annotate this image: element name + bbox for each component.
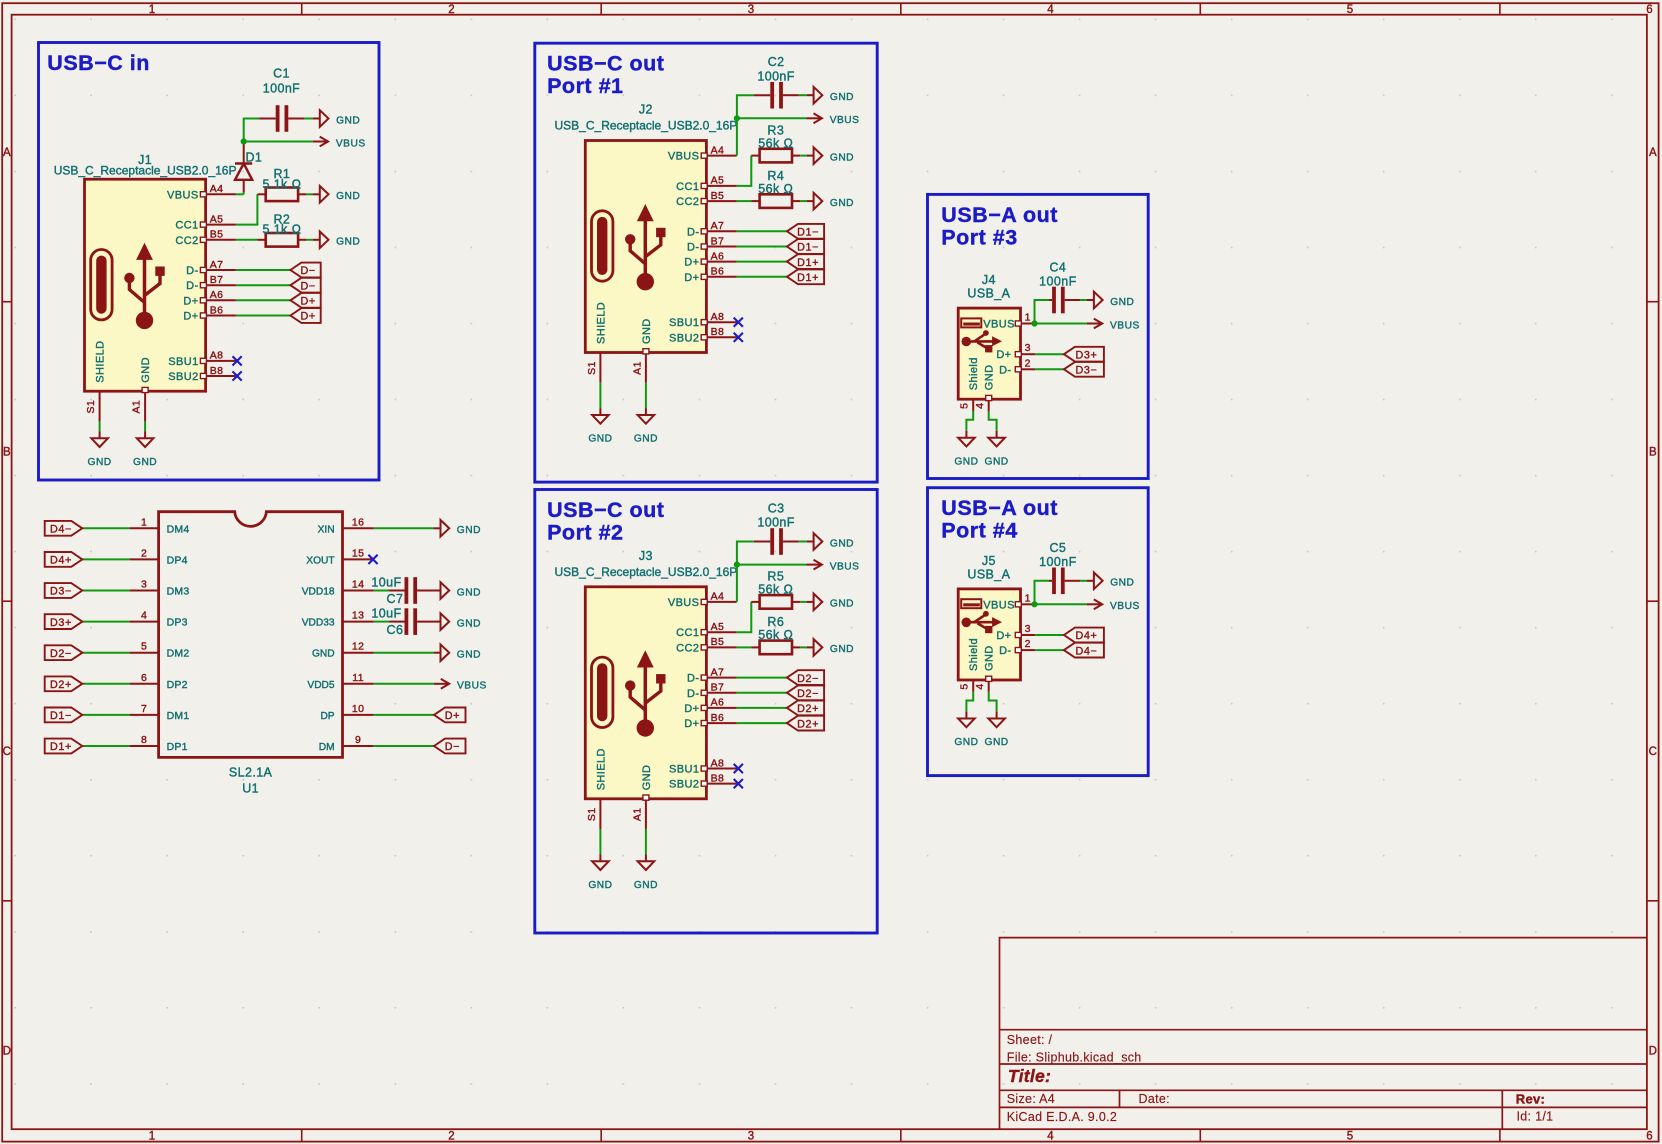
wire CC1 riser to R1 — [236, 194, 258, 224]
hierarchical label D2+ (J3 A6) — [787, 701, 824, 716]
wire R3 to GND — [800, 155, 806, 157]
power symbol GND (J5 shield) — [965, 712, 967, 719]
svg-text:8: 8 — [141, 734, 147, 746]
svg-text:7: 7 — [141, 703, 147, 715]
svg-text:D+: D+ — [183, 295, 198, 307]
power symbol GND (C4) — [1087, 299, 1094, 301]
svg-text:DP1: DP1 — [167, 741, 188, 753]
svg-text:D1+: D1+ — [797, 257, 819, 269]
wire CC1 riser to R3 — [737, 156, 752, 186]
power symbol GND (C3) — [807, 541, 814, 543]
svg-text:12: 12 — [352, 641, 364, 653]
hierarchical label D1- (J2 B7) — [787, 239, 824, 254]
hierarchical label D+ (A6) — [290, 293, 320, 308]
svg-text:D2−: D2− — [797, 688, 819, 700]
svg-text:A8: A8 — [711, 311, 725, 323]
svg-text:VBUS: VBUS — [668, 151, 700, 163]
svg-text:GND: GND — [336, 237, 360, 248]
svg-text:SHIELD: SHIELD — [95, 341, 107, 383]
wire VDD33 to C6 — [374, 621, 390, 623]
svg-text:1: 1 — [1025, 312, 1031, 324]
power symbol GND (J3 shield) — [599, 854, 601, 861]
wire A6 to label D2+ — [737, 707, 787, 709]
svg-text:VBUS: VBUS — [1110, 320, 1140, 331]
svg-text:A6: A6 — [210, 289, 224, 301]
svg-text:2: 2 — [448, 1131, 454, 1143]
U1 pin 1 DM4 — [130, 516, 190, 535]
svg-text:SL2.1A: SL2.1A — [229, 766, 273, 780]
svg-text:DM3: DM3 — [167, 586, 190, 598]
svg-text:B5: B5 — [711, 190, 725, 202]
IC U1 SL2.1A — [159, 512, 343, 796]
hierarchical label D1- (U1 input) — [45, 708, 83, 723]
wire A7 to label D1- — [737, 230, 787, 232]
U1 pin 10 DP — [320, 703, 373, 722]
wire XIN to GND — [374, 527, 434, 529]
svg-text:C6: C6 — [387, 623, 404, 637]
svg-text:A7: A7 — [210, 259, 224, 271]
hierarchical label D3+ (J4) — [1064, 347, 1104, 362]
svg-text:C7: C7 — [387, 592, 404, 606]
capacitor C5 100nF — [1039, 541, 1080, 594]
svg-text:J2: J2 — [639, 103, 653, 117]
svg-text:GND: GND — [830, 599, 854, 610]
svg-text:C5: C5 — [1050, 541, 1067, 555]
svg-text:D4−: D4− — [1076, 645, 1098, 657]
svg-text:A4: A4 — [711, 144, 725, 156]
svg-text:D−: D− — [300, 265, 315, 277]
svg-text:D3+: D3+ — [1076, 349, 1098, 361]
svg-text:D1+: D1+ — [797, 272, 819, 284]
svg-text:SBU2: SBU2 — [669, 332, 699, 344]
power symbol GND (R3) — [807, 155, 814, 157]
wire pin1 riser to C5 — [1035, 581, 1050, 605]
svg-text:S1: S1 — [586, 361, 598, 375]
svg-text:GND: GND — [457, 650, 481, 661]
junction VBUS node — [241, 138, 247, 144]
no-connect SBU1 — [233, 356, 242, 365]
resistor R2 5.1k — [257, 212, 306, 246]
wire VBUS J4 — [1035, 323, 1087, 325]
wire label D4+ to U1 pin 2 — [82, 558, 129, 560]
title block outline — [1000, 938, 1647, 1130]
wire VBUS riser to C1 — [244, 119, 260, 142]
svg-text:5: 5 — [141, 641, 147, 653]
U1 pin 9 DM — [319, 734, 374, 753]
U1 pin 4 DP3 — [130, 610, 188, 629]
svg-text:13: 13 — [352, 610, 364, 622]
power symbol VBUS (J5) — [1087, 603, 1102, 605]
svg-text:SBU1: SBU1 — [168, 356, 198, 368]
power symbol GND (R4) — [807, 200, 814, 202]
svg-text:CC1: CC1 — [175, 220, 198, 232]
svg-text:B7: B7 — [711, 682, 725, 694]
svg-text:R4: R4 — [767, 169, 784, 183]
wire CC2 to R4 — [737, 200, 752, 202]
svg-text:4: 4 — [141, 610, 147, 622]
svg-text:GND: GND — [985, 456, 1009, 467]
wire GND pin12 — [374, 652, 434, 654]
svg-text:2: 2 — [1025, 638, 1031, 650]
svg-text:D3+: D3+ — [50, 617, 72, 629]
svg-text:56k Ω: 56k Ω — [758, 628, 793, 642]
capacitor C4 100nF — [1039, 260, 1080, 313]
svg-text:GND: GND — [336, 115, 360, 126]
svg-text:B6: B6 — [711, 266, 725, 278]
power symbol GND (J1 gnd) — [144, 431, 146, 438]
svg-text:11: 11 — [352, 672, 364, 684]
wire DM to label D- — [374, 745, 434, 747]
connector J4 USB_A — [958, 273, 1035, 411]
svg-text:DM4: DM4 — [167, 523, 190, 535]
svg-text:GND: GND — [88, 457, 112, 468]
svg-text:SHIELD: SHIELD — [595, 748, 607, 790]
svg-text:D+: D+ — [183, 311, 198, 323]
hierarchical label D2+ (U1 input) — [45, 676, 83, 691]
svg-text:4: 4 — [1047, 1131, 1054, 1143]
svg-text:GND: GND — [954, 456, 978, 467]
wire B7 to label D1- — [737, 246, 787, 248]
svg-text:GND: GND — [641, 765, 653, 791]
wire B6 to label D+ — [236, 315, 291, 317]
svg-text:XIN: XIN — [318, 524, 335, 535]
svg-text:Size: A4: Size: A4 — [1007, 1092, 1055, 1106]
power symbol GND (R2) — [313, 239, 320, 241]
svg-text:USB_A: USB_A — [967, 287, 1010, 301]
hierarchical label D3- (U1 input) — [45, 583, 83, 598]
U1 pin 7 DM1 — [130, 703, 190, 722]
svg-text:9: 9 — [355, 734, 361, 746]
power symbol GND (J2 shield) — [599, 408, 601, 415]
hierarchical label D1- (J2 A7) — [787, 224, 824, 239]
hierarchical label D4+ (U1 input) — [45, 552, 83, 567]
svg-text:6: 6 — [141, 672, 147, 684]
junction VBUS node J3 — [734, 562, 740, 568]
svg-text:CC2: CC2 — [676, 196, 699, 208]
svg-text:GND: GND — [588, 434, 612, 445]
svg-text:DP3: DP3 — [167, 617, 188, 629]
svg-text:D+: D+ — [684, 718, 699, 730]
svg-text:XOUT: XOUT — [306, 555, 334, 566]
svg-text:56k Ω: 56k Ω — [758, 136, 793, 150]
power symbol GND (J4 gnd) — [996, 431, 998, 438]
wire CC2 to R6 — [737, 646, 752, 648]
connector J5 USB_A — [958, 554, 1035, 692]
svg-text:CC2: CC2 — [676, 642, 699, 654]
svg-text:D2+: D2+ — [50, 679, 72, 691]
hierarchical label D2- (J3 A7) — [787, 670, 824, 685]
svg-text:GND: GND — [830, 152, 854, 163]
svg-text:GND: GND — [457, 587, 481, 598]
svg-text:A6: A6 — [711, 697, 725, 709]
wire D+ to label D4+ — [1035, 634, 1064, 636]
wire C3 to GND — [799, 541, 807, 543]
no-connect SBU2 — [233, 371, 242, 380]
svg-text:3: 3 — [748, 1131, 754, 1143]
svg-text:DP: DP — [320, 711, 334, 722]
text box USB-C out Port #2 — [535, 490, 877, 934]
svg-text:U1: U1 — [242, 782, 259, 796]
svg-text:B8: B8 — [711, 326, 725, 338]
capacitor C7 10uF — [371, 575, 433, 605]
wire R1 to GND — [306, 193, 313, 195]
svg-text:VBUS: VBUS — [457, 681, 487, 692]
wire gnd pin4 to GND J5 — [989, 692, 997, 712]
svg-text:Shield: Shield — [968, 357, 980, 390]
svg-text:R5: R5 — [767, 570, 784, 584]
text box USB-C out Port #1 — [535, 43, 877, 482]
svg-text:A5: A5 — [210, 213, 224, 225]
svg-text:VBUS: VBUS — [830, 561, 860, 572]
capacitor C6 10uF — [371, 607, 433, 637]
svg-text:J5: J5 — [982, 554, 996, 568]
svg-text:2: 2 — [1025, 357, 1031, 369]
power symbol VBUS (J2) — [807, 117, 822, 119]
hierarchical label D4- (U1 input) — [45, 521, 83, 536]
power symbol GND (J2 gnd) — [645, 408, 647, 415]
wire CC1 riser to R5 — [737, 602, 752, 632]
power symbol GND (C5) — [1087, 580, 1094, 582]
svg-text:D1−: D1− — [50, 710, 72, 722]
svg-text:Shield: Shield — [968, 638, 980, 671]
svg-text:SBU1: SBU1 — [669, 317, 699, 329]
svg-text:Id: 1/1: Id: 1/1 — [1517, 1110, 1554, 1124]
svg-text:CC1: CC1 — [676, 627, 699, 639]
svg-text:B7: B7 — [711, 235, 725, 247]
resistor R4 56k — [751, 169, 800, 208]
power symbol VBUS (VDD5) — [434, 683, 449, 685]
svg-text:GND: GND — [336, 191, 360, 202]
resistor R6 56k — [751, 615, 800, 654]
U1 pin 6 DP2 — [130, 672, 188, 691]
U1 pin 12 GND — [312, 641, 374, 660]
svg-text:A4: A4 — [210, 183, 224, 195]
power symbol GND (R1) — [313, 193, 320, 195]
svg-text:2: 2 — [448, 4, 454, 16]
capacitor C1 100nF — [259, 67, 304, 132]
svg-text:GND: GND — [457, 618, 481, 629]
wire R4 to GND — [800, 200, 806, 202]
svg-text:SBU1: SBU1 — [669, 764, 699, 776]
svg-text:D3−: D3− — [1076, 365, 1098, 377]
svg-text:D: D — [1649, 1046, 1657, 1058]
wire VBUS J2 — [737, 117, 807, 119]
power symbol GND (C7) — [434, 590, 441, 592]
wire D- to label D4- — [1035, 649, 1064, 651]
svg-text:B5: B5 — [210, 229, 224, 241]
svg-text:GND: GND — [1110, 578, 1134, 589]
wire DP to label D+ — [374, 714, 434, 716]
svg-text:DM1: DM1 — [167, 710, 190, 722]
svg-text:GND: GND — [634, 434, 658, 445]
svg-text:CC2: CC2 — [175, 235, 198, 247]
hierarchical label D+ (B6) — [290, 308, 320, 323]
wire C2 to GND — [799, 94, 807, 96]
svg-text:3: 3 — [1025, 342, 1031, 354]
svg-text:SBU2: SBU2 — [669, 779, 699, 791]
wire label D3- to U1 pin 3 — [82, 590, 129, 592]
wire A4 riser to C2 — [737, 95, 754, 155]
wire A6 to label D1+ — [737, 261, 787, 263]
hierarchical label D3+ (U1 input) — [45, 614, 83, 629]
wire S1 to GND — [99, 421, 101, 431]
hierarchical label D+ (U1 DP) — [434, 708, 466, 723]
svg-text:VBUS: VBUS — [830, 115, 860, 126]
svg-text:D+: D+ — [684, 257, 699, 269]
svg-text:D2−: D2− — [797, 673, 819, 685]
hierarchical label D4- (J5) — [1064, 643, 1104, 658]
svg-text:100nF: 100nF — [263, 82, 300, 96]
hierarchical label D- (B7) — [290, 278, 320, 293]
svg-text:GND: GND — [830, 644, 854, 655]
svg-text:D4−: D4− — [50, 524, 72, 536]
svg-text:D+: D+ — [445, 710, 460, 722]
wire B6 to label D1+ — [737, 276, 787, 278]
svg-text:GND: GND — [457, 525, 481, 536]
svg-text:USB−A out: USB−A out — [941, 203, 1058, 227]
svg-text:D-: D- — [687, 242, 699, 254]
power symbol GND (R5) — [807, 601, 814, 603]
svg-text:D+: D+ — [684, 272, 699, 284]
svg-text:D−: D− — [445, 741, 460, 753]
svg-text:GND: GND — [830, 92, 854, 103]
svg-text:GND: GND — [830, 198, 854, 209]
text box USB-A out Port #4 — [928, 488, 1149, 776]
hierarchical label D2- (U1 input) — [45, 645, 83, 660]
connector J2 USB_C_Receptacle_USB2.0_16P — [555, 103, 738, 383]
svg-text:USB_C_Receptacle_USB2.0_16P: USB_C_Receptacle_USB2.0_16P — [555, 565, 738, 579]
resistor R1 5.1k — [257, 167, 306, 201]
svg-text:SHIELD: SHIELD — [595, 302, 607, 344]
U1 pin 13 VDD33 — [302, 610, 374, 629]
svg-text:B6: B6 — [210, 304, 224, 316]
U1 pin 16 XIN — [318, 516, 374, 535]
svg-text:16: 16 — [352, 516, 364, 528]
svg-text:5: 5 — [1347, 4, 1353, 16]
U1 pin 11 VDD5 — [307, 672, 373, 691]
svg-text:D+: D+ — [684, 703, 699, 715]
svg-text:D+: D+ — [300, 311, 315, 323]
svg-text:VDD33: VDD33 — [302, 618, 335, 629]
svg-text:KiCad E.D.A. 9.0.2: KiCad E.D.A. 9.0.2 — [1007, 1110, 1117, 1124]
U1 pin 14 VDD18 — [302, 579, 374, 598]
junction VBUS node J4 — [1031, 320, 1037, 326]
svg-text:100nF: 100nF — [1039, 555, 1076, 569]
U1 pin 3 DM3 — [130, 579, 190, 598]
power symbol VBUS (J1) — [313, 141, 328, 143]
svg-text:D-: D- — [687, 673, 699, 685]
svg-text:GND: GND — [984, 365, 996, 391]
svg-text:1: 1 — [149, 4, 155, 16]
svg-text:10uF: 10uF — [371, 575, 401, 589]
wire R5 to GND — [800, 601, 806, 603]
wire A6 to label D+ — [236, 299, 291, 301]
wire B6 to label D2+ — [737, 722, 787, 724]
no-connect SBU1 J2 — [734, 318, 743, 327]
svg-text:R6: R6 — [767, 615, 784, 629]
connector J3 USB_C_Receptacle_USB2.0_16P — [555, 549, 738, 829]
svg-text:14: 14 — [352, 579, 364, 591]
wire A7 to label D- — [236, 269, 291, 271]
svg-text:USB−A out: USB−A out — [941, 496, 1058, 520]
svg-text:D: D — [3, 1046, 11, 1058]
svg-text:A1: A1 — [631, 361, 643, 375]
wire label D1- to U1 pin 7 — [82, 714, 129, 716]
svg-text:CC1: CC1 — [676, 181, 699, 193]
svg-text:USB−C out: USB−C out — [547, 498, 664, 522]
hierarchical label D1+ (J2 B6) — [787, 269, 824, 284]
svg-text:D-: D- — [687, 688, 699, 700]
U1 pin 5 DM2 — [130, 641, 190, 660]
svg-text:USB−C in: USB−C in — [47, 51, 150, 75]
wire CC2 to R2 — [236, 239, 258, 241]
svg-text:Port #4: Port #4 — [941, 519, 1017, 543]
wire A1 to GND J3 — [645, 829, 647, 854]
power symbol GND (XIN) — [434, 527, 441, 529]
connector J1 USB_C_Receptacle_USB2.0_16P — [54, 153, 237, 422]
svg-text:D+: D+ — [996, 630, 1011, 642]
svg-text:VBUS: VBUS — [983, 599, 1015, 611]
svg-text:D1: D1 — [246, 151, 263, 165]
wire label D1+ to U1 pin 8 — [82, 745, 129, 747]
svg-text:C2: C2 — [768, 55, 785, 69]
svg-text:D-: D- — [687, 226, 699, 238]
svg-text:A1: A1 — [631, 807, 643, 821]
svg-text:VBUS: VBUS — [1110, 601, 1140, 612]
svg-text:C4: C4 — [1050, 260, 1067, 274]
wire A1 to GND — [144, 421, 146, 431]
hierarchical label D3- (J4) — [1064, 362, 1104, 377]
svg-text:GND: GND — [830, 538, 854, 549]
svg-text:B: B — [1649, 447, 1657, 459]
svg-text:B5: B5 — [711, 636, 725, 648]
hierarchical label D2+ (J3 B6) — [787, 716, 824, 731]
wire VBUS J3 — [737, 564, 807, 566]
wire shield pin5 to GND J5 — [966, 692, 973, 712]
wire C5 to GND — [1080, 580, 1087, 582]
svg-text:VBUS: VBUS — [167, 189, 199, 201]
svg-text:VBUS: VBUS — [983, 319, 1015, 331]
diode D1 — [235, 142, 262, 195]
svg-text:D1−: D1− — [797, 227, 819, 239]
svg-text:D2+: D2+ — [797, 703, 819, 715]
svg-text:1: 1 — [141, 516, 147, 528]
svg-text:J4: J4 — [982, 273, 996, 287]
junction VBUS node J5 — [1031, 601, 1037, 607]
svg-text:D3−: D3− — [50, 586, 72, 598]
svg-text:B6: B6 — [711, 712, 725, 724]
hierarchical label D1+ (J2 A6) — [787, 254, 824, 269]
hierarchical label D4+ (J5) — [1064, 628, 1104, 643]
power symbol GND (J5 gnd) — [996, 712, 998, 719]
svg-text:GND: GND — [984, 645, 996, 671]
wire pin1 riser to C4 — [1035, 300, 1050, 324]
svg-text:B7: B7 — [210, 274, 224, 286]
svg-text:2: 2 — [141, 547, 147, 559]
svg-text:3: 3 — [141, 579, 147, 591]
wire VDD18 to C7 — [374, 590, 390, 592]
svg-text:100nF: 100nF — [757, 69, 794, 83]
svg-text:Port #1: Port #1 — [547, 74, 623, 98]
power symbol VBUS (J3) — [807, 564, 822, 566]
wire gnd pin4 to GND J4 — [989, 411, 997, 431]
svg-text:A7: A7 — [711, 666, 725, 678]
svg-text:4: 4 — [974, 683, 986, 689]
svg-text:3: 3 — [1025, 623, 1031, 635]
svg-text:10uF: 10uF — [371, 607, 401, 621]
power symbol GND (J1 shield) — [99, 431, 101, 438]
svg-text:D-: D- — [186, 265, 198, 277]
